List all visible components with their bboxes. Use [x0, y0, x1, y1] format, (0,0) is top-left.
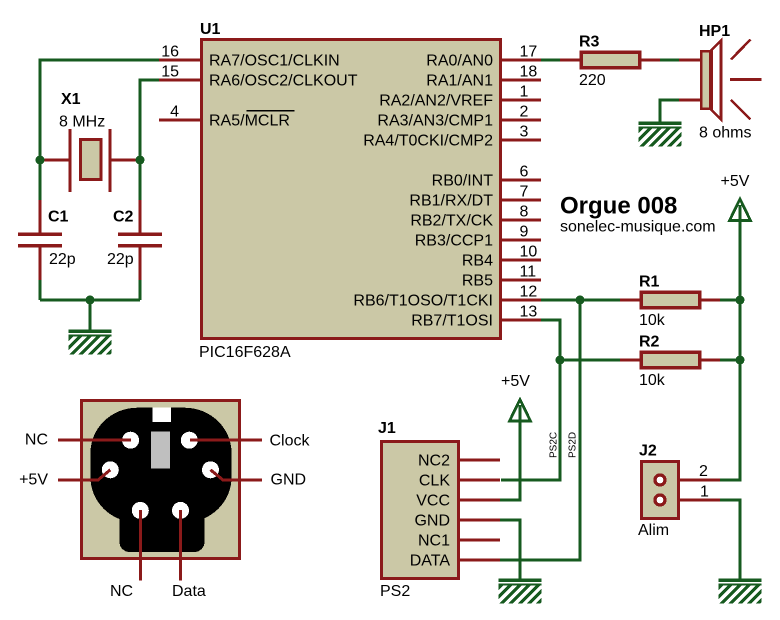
svg-text:16: 16: [161, 44, 179, 61]
svg-text:RB3/CCP1: RB3/CCP1: [415, 233, 493, 250]
svg-text:RA4/T0CKI/CMP2: RA4/T0CKI/CMP2: [363, 133, 493, 150]
svg-text:RA0/AN0: RA0/AN0: [426, 53, 493, 70]
svg-text:NC2: NC2: [418, 453, 450, 470]
svg-text:6: 6: [520, 164, 529, 181]
svg-text:10k: 10k: [639, 372, 666, 389]
svg-text:GND: GND: [271, 472, 307, 489]
svg-text:RB5: RB5: [462, 273, 493, 290]
svg-text:Alim: Alim: [638, 522, 669, 539]
svg-text:NC1: NC1: [418, 533, 450, 550]
svg-text:8 ohms: 8 ohms: [699, 125, 751, 142]
svg-text:7: 7: [520, 184, 529, 201]
svg-text:+5V: +5V: [501, 373, 530, 390]
svg-text:1: 1: [700, 484, 709, 501]
svg-text:Clock: Clock: [270, 433, 311, 450]
svg-text:22p: 22p: [107, 251, 134, 268]
svg-text:1: 1: [520, 84, 529, 101]
svg-text:3: 3: [520, 124, 529, 141]
svg-text:10: 10: [520, 244, 538, 261]
svg-text:R3: R3: [579, 34, 600, 51]
svg-text:PS2: PS2: [380, 583, 410, 600]
svg-text:CLK: CLK: [419, 473, 450, 490]
svg-text:DATA: DATA: [410, 553, 451, 570]
svg-text:15: 15: [161, 64, 179, 81]
svg-text:NC: NC: [110, 583, 133, 600]
svg-text:8: 8: [520, 204, 529, 221]
svg-text:220: 220: [579, 72, 606, 89]
svg-text:J1: J1: [378, 420, 396, 437]
svg-text:RB2/TX/CK: RB2/TX/CK: [410, 213, 493, 230]
svg-text:PS2D: PS2D: [568, 432, 579, 458]
svg-text:RB4: RB4: [462, 253, 493, 270]
svg-text:VCC: VCC: [416, 493, 450, 510]
svg-text:2: 2: [520, 104, 529, 121]
svg-text:RA1/AN1: RA1/AN1: [426, 73, 493, 90]
svg-text:C2: C2: [113, 209, 134, 226]
svg-text:NC: NC: [25, 432, 48, 449]
svg-text:sonelec-musique.com: sonelec-musique.com: [560, 219, 716, 236]
svg-text:GND: GND: [414, 513, 450, 530]
svg-text:RB1/RX/DT: RB1/RX/DT: [409, 193, 493, 210]
svg-text:10k: 10k: [639, 312, 666, 329]
svg-text:RA6/OSC2/CLKOUT: RA6/OSC2/CLKOUT: [209, 73, 358, 90]
svg-text:17: 17: [520, 44, 538, 61]
svg-text:RA3/AN3/CMP1: RA3/AN3/CMP1: [377, 113, 493, 130]
svg-text:R1: R1: [639, 274, 660, 291]
svg-text:RB7/T1OSI: RB7/T1OSI: [411, 313, 493, 330]
svg-text:RA5/MCLR: RA5/MCLR: [209, 113, 290, 130]
svg-text:PIC16F628A: PIC16F628A: [199, 344, 291, 361]
svg-text:12: 12: [520, 284, 538, 301]
svg-text:HP1: HP1: [699, 23, 730, 40]
svg-text:+5V: +5V: [19, 472, 48, 489]
svg-text:RA2/AN2/VREF: RA2/AN2/VREF: [379, 93, 493, 110]
svg-text:+5V: +5V: [721, 173, 750, 190]
svg-text:18: 18: [520, 64, 538, 81]
svg-text:U1: U1: [200, 21, 221, 38]
svg-text:X1: X1: [61, 91, 81, 108]
svg-text:RA7/OSC1/CLKIN: RA7/OSC1/CLKIN: [209, 53, 340, 70]
svg-text:RB0/INT: RB0/INT: [432, 173, 494, 190]
svg-text:R2: R2: [639, 334, 660, 351]
svg-text:RB6/T1OSO/T1CKI: RB6/T1OSO/T1CKI: [353, 293, 493, 310]
svg-text:8 MHz: 8 MHz: [59, 114, 105, 131]
svg-text:9: 9: [520, 224, 529, 241]
svg-text:Orgue 008: Orgue 008: [560, 193, 677, 220]
svg-text:J2: J2: [639, 443, 657, 460]
svg-text:2: 2: [699, 463, 708, 480]
svg-text:C1: C1: [48, 209, 69, 226]
svg-text:4: 4: [170, 104, 179, 121]
svg-text:13: 13: [520, 304, 538, 321]
svg-text:PS2C: PS2C: [549, 432, 560, 458]
svg-text:22p: 22p: [49, 251, 76, 268]
svg-text:Data: Data: [172, 583, 206, 600]
svg-text:11: 11: [520, 264, 537, 281]
